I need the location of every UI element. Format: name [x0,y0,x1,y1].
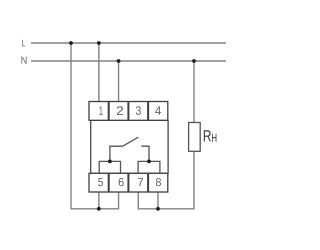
net L label [22,40,25,47]
pin 3 label [136,106,141,115]
switch S1 pole [110,146,123,161]
wire terminal 8 down [157,192,159,209]
pin 8 label [156,178,161,186]
junction dot switch pole [108,160,112,164]
net N label [21,57,26,64]
junction dot N at terminal 2 wire [117,59,121,63]
terminal row top (1-4) [89,102,168,121]
junction dot N at resistor wire [192,59,196,63]
switch S1 blade [123,137,138,146]
wire terminal 7 down [137,192,139,210]
device body [91,120,168,173]
pin 5 label [98,178,103,186]
resistor RH value label H subscript [212,134,216,142]
junction dot L at x=71 [69,41,73,45]
resistor RH value label R [204,130,211,141]
junction dot switch contact [147,160,151,164]
wire L to terminal 1 [98,43,100,102]
pin 1 label [99,106,102,115]
wire N line [31,60,226,62]
resistor RH [189,123,201,152]
wire terminal 5 down [98,192,100,209]
wire terminal 6 down [118,192,120,210]
wire bracket joining terminals 7-8 [138,161,160,173]
wire N to terminal 2 [118,61,120,102]
wire resistor bottom to bus [138,151,194,209]
junction dot bottom-left bus [97,207,101,211]
pin 4 label [155,106,161,115]
junction dot L at terminal 1 wire [97,41,101,45]
junction dot bottom-right bus [156,207,160,211]
pin 7 label [138,178,143,186]
switch S1 fixed contact [141,146,149,161]
wire L line [31,42,226,44]
pin 6 label [119,178,124,186]
terminal row bottom (5-8) [89,173,168,192]
wire bracket joining terminals 5-6 [99,161,120,173]
wire N to resistor top [193,61,195,123]
wire L to bottom-left bus [71,43,119,209]
pin 2 label [117,106,123,115]
